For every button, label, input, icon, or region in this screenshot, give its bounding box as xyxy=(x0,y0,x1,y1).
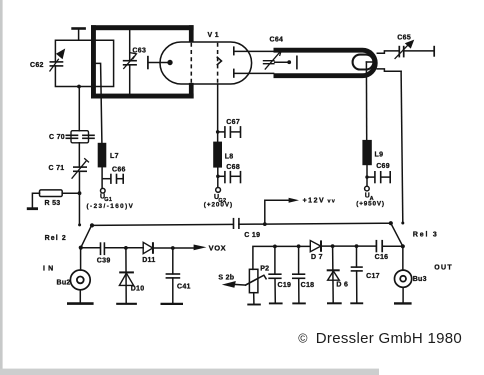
svg-text:(+200V): (+200V) xyxy=(204,202,233,209)
svg-text:(+950V): (+950V) xyxy=(356,200,385,207)
svg-text:D 7: D 7 xyxy=(311,254,323,261)
svg-text:L9: L9 xyxy=(375,151,384,158)
svg-text:C 70: C 70 xyxy=(49,134,65,141)
svg-text:C17: C17 xyxy=(366,273,380,280)
svg-text:C66: C66 xyxy=(112,166,126,173)
svg-text:OUT: OUT xyxy=(434,264,453,271)
svg-text:Dressler GmbH 1980: Dressler GmbH 1980 xyxy=(316,330,462,347)
svg-text:C68: C68 xyxy=(226,164,240,171)
svg-text:D11: D11 xyxy=(142,257,155,264)
svg-text:C64: C64 xyxy=(270,36,284,43)
svg-text:Bu3: Bu3 xyxy=(413,276,427,283)
svg-text:vv: vv xyxy=(328,199,337,205)
svg-text:C 19: C 19 xyxy=(244,232,260,239)
svg-text:R 53: R 53 xyxy=(45,200,61,207)
svg-text:(-23/-160)V: (-23/-160)V xyxy=(87,203,135,210)
svg-text:C67: C67 xyxy=(226,119,240,126)
svg-text:Rel 2: Rel 2 xyxy=(45,235,67,242)
svg-text:L8: L8 xyxy=(225,153,234,160)
svg-text:Bu2: Bu2 xyxy=(57,280,71,287)
svg-text:D10: D10 xyxy=(131,286,145,293)
svg-text:IN: IN xyxy=(43,266,56,273)
svg-text:C16: C16 xyxy=(375,254,389,261)
svg-text:C65: C65 xyxy=(397,34,411,41)
svg-text:C 71: C 71 xyxy=(49,165,65,172)
svg-text:V 1: V 1 xyxy=(208,32,219,39)
svg-text:C18: C18 xyxy=(301,282,315,289)
svg-text:C39: C39 xyxy=(97,258,111,265)
svg-text:C63: C63 xyxy=(132,47,146,54)
svg-text:C19: C19 xyxy=(278,282,292,289)
svg-text:C62: C62 xyxy=(30,62,44,69)
svg-text:C41: C41 xyxy=(177,284,191,291)
svg-text:+12V: +12V xyxy=(303,198,326,205)
svg-text:P2: P2 xyxy=(260,266,269,273)
svg-text:VOX: VOX xyxy=(209,244,227,253)
svg-text:C69: C69 xyxy=(376,163,390,170)
svg-text:D 6: D 6 xyxy=(336,282,348,289)
svg-text:S 2b: S 2b xyxy=(218,275,234,282)
svg-text:L7: L7 xyxy=(110,153,119,160)
svg-text:©: © xyxy=(298,332,308,346)
svg-text:Rel 3: Rel 3 xyxy=(413,231,439,238)
